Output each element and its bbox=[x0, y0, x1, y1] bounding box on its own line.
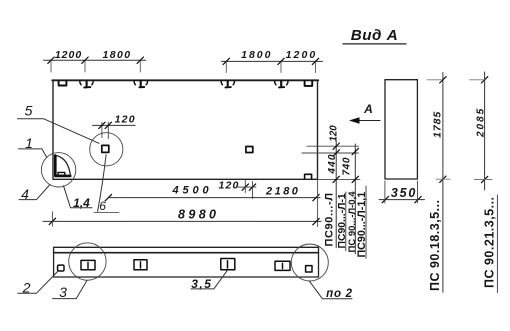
position label po 2 bbox=[310, 281, 353, 300]
right extension line of panel edge bbox=[317, 181, 319, 227]
overall dim line 8980 bbox=[43, 220, 321, 222]
position label 3,5 bbox=[191, 271, 227, 291]
plate 2 bbox=[134, 260, 147, 270]
mid 120 extension lines bbox=[244, 180, 246, 193]
mark column 4 underline bbox=[365, 186, 367, 258]
svg-text:350: 350 bbox=[391, 186, 417, 200]
plate 4 bbox=[275, 261, 290, 270]
corner detail arc bbox=[57, 156, 71, 176]
right vertical dim line 1 (120/440) and underline of mark 1 bbox=[335, 141, 337, 248]
position label 1 bbox=[19, 135, 47, 158]
svg-text:2180: 2180 bbox=[265, 185, 300, 197]
8980 left extension line bbox=[51, 212, 53, 226]
lifting pocket P3 bbox=[221, 81, 234, 87]
detail circle bottom right bbox=[291, 244, 328, 281]
panel plan view outline bbox=[53, 80, 318, 179]
right vertical dim line 2 (740) and underline of mark 3 bbox=[354, 144, 356, 254]
main dim ticks bbox=[105, 194, 111, 200]
bottom view inner line bbox=[54, 252, 319, 254]
top dimension line left segment bbox=[44, 59, 146, 61]
position label 5 bbox=[18, 103, 100, 144]
svg-text:3: 3 bbox=[59, 284, 67, 300]
svg-text:440: 440 bbox=[327, 153, 338, 174]
svg-text:8980: 8980 bbox=[178, 207, 219, 221]
position label 1,4 bbox=[64, 186, 93, 210]
svg-text:2085: 2085 bbox=[476, 107, 487, 138]
120 dim ticks bbox=[99, 122, 105, 128]
top dim ticks bbox=[48, 57, 319, 65]
2085 extension dashes bbox=[470, 79, 487, 81]
svg-text:ПС90...-Л: ПС90...-Л bbox=[324, 192, 336, 246]
8980 ticks bbox=[49, 218, 55, 224]
1785 ticks bbox=[440, 77, 446, 83]
view arrow A line bbox=[351, 120, 380, 122]
position label 3 bbox=[53, 280, 88, 300]
2085 ticks bbox=[481, 77, 487, 83]
svg-text:ПС 90.21.3,5...: ПС 90.21.3,5... bbox=[482, 196, 496, 288]
detail circle bottom left bbox=[69, 243, 106, 280]
svg-text:ПС 90.18.3,5...: ПС 90.18.3,5... bbox=[428, 199, 442, 291]
anchor square right bbox=[306, 266, 312, 272]
svg-text:Вид А: Вид А bbox=[351, 27, 399, 44]
svg-text:120: 120 bbox=[329, 125, 340, 142]
svg-text:1800: 1800 bbox=[241, 49, 272, 61]
side view outline bbox=[385, 80, 417, 179]
svg-text:120: 120 bbox=[115, 113, 136, 125]
svg-text:1200: 1200 bbox=[55, 49, 82, 61]
lifting pocket P2 bbox=[134, 81, 147, 87]
view arrow A head bbox=[349, 117, 360, 124]
1785 dim line / mark underline bbox=[442, 73, 444, 293]
2085 dim line bbox=[484, 72, 486, 190]
svg-text:740: 740 bbox=[341, 157, 352, 176]
plate 3 bbox=[221, 259, 235, 270]
top dimension line right segment bbox=[222, 60, 323, 62]
detail circle over insert S1 bbox=[90, 133, 123, 166]
position label 2 bbox=[18, 272, 58, 296]
insert square S1 bbox=[102, 145, 109, 152]
plate 1 bbox=[81, 260, 95, 269]
corner notch left bbox=[59, 81, 67, 86]
mid 120 ticks bbox=[242, 184, 248, 190]
svg-text:5: 5 bbox=[25, 103, 33, 119]
350 dim line bbox=[379, 199, 425, 201]
corner detail angle bbox=[55, 155, 70, 176]
svg-text:1200: 1200 bbox=[286, 49, 318, 61]
120 dim over insert S1: dim line bbox=[93, 124, 136, 126]
panel plan top edge (thick) bbox=[52, 79, 318, 81]
lifting pocket P1 bbox=[80, 81, 93, 88]
top dim extension lines bbox=[51, 62, 316, 73]
svg-text:А: А bbox=[363, 102, 373, 116]
right side extension lines from insert S2 heights bbox=[307, 145, 359, 147]
ticks on line 2 bbox=[352, 148, 358, 182]
insert square S2 bbox=[246, 147, 253, 153]
svg-text:120: 120 bbox=[218, 179, 239, 191]
main dim line 4500/2180 bbox=[108, 197, 320, 199]
title underline bbox=[343, 43, 406, 45]
mark PS 90.21 underline bbox=[496, 195, 498, 293]
120 dim over insert S1: extension lines bbox=[101, 122, 103, 137]
ticks on line 1 bbox=[333, 143, 339, 183]
svg-text:ПС90...-Л-1,1: ПС90...-Л-1,1 bbox=[356, 192, 368, 258]
mark column 2 underline bbox=[345, 192, 347, 251]
1785 extension dashes bbox=[427, 79, 442, 81]
position label 4 bbox=[19, 185, 50, 203]
lifting pocket P4 bbox=[275, 81, 288, 87]
350 extension lines bbox=[384, 181, 386, 203]
insert square S3 on bottom edge bbox=[305, 174, 312, 179]
corner notch right bbox=[305, 81, 313, 86]
350 ticks bbox=[382, 196, 388, 202]
svg-text:1785: 1785 bbox=[431, 111, 443, 138]
svg-text:по 2: по 2 bbox=[326, 288, 353, 300]
svg-text:1800: 1800 bbox=[103, 49, 132, 61]
svg-text:4500: 4500 bbox=[171, 185, 212, 197]
mid 120 mini dim line bbox=[238, 186, 257, 188]
anchor square left bbox=[58, 265, 64, 271]
corner detail box bbox=[58, 172, 65, 175]
position label 6 bbox=[94, 155, 119, 213]
detail circle over corner bbox=[41, 153, 75, 187]
bottom edge view outline bbox=[54, 247, 319, 277]
